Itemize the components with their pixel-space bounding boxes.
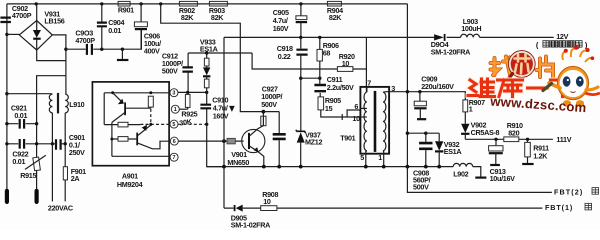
marker polarity arrow C910 <box>229 106 235 112</box>
svg-text:HM9204: HM9204 <box>117 180 143 189</box>
resistor R903 <box>209 1 228 21</box>
svg-text:15: 15 <box>325 104 333 113</box>
capacitor C904 <box>97 4 125 49</box>
wire collector node to C927 <box>263 111 279 113</box>
node rail-bridge junction <box>5 33 8 36</box>
node internal dashed junction <box>149 123 152 126</box>
label FBT(1) pin <box>545 203 592 212</box>
pin 1 of A901 <box>171 105 179 113</box>
wire T901 pin6 stub <box>347 110 361 117</box>
ground R911 <box>522 163 533 165</box>
watermark magnifier with xin char <box>508 51 535 79</box>
inductor L910 line filter <box>49 93 84 114</box>
svg-text:L902: L902 <box>453 170 468 179</box>
svg-text:10u/16V: 10u/16V <box>490 174 516 183</box>
node C909 top junction <box>418 90 421 93</box>
svg-text:FBT(2): FBT(2) <box>554 188 583 197</box>
svg-text:1: 1 <box>469 104 473 113</box>
node bus-C905 junction <box>299 2 302 5</box>
inductor L903 100uH <box>461 17 482 38</box>
svg-text:500V: 500V <box>162 66 178 75</box>
wire bridge bottom tip L-run <box>37 50 66 61</box>
label FBT(2) pin <box>554 188 599 197</box>
node rail-C921 junction <box>5 122 8 125</box>
svg-text:ES1A: ES1A <box>444 147 462 156</box>
node C901-L910right junction <box>64 142 67 145</box>
wire bottom rail <box>207 167 481 177</box>
svg-text:MN650: MN650 <box>227 158 249 167</box>
svg-text:0.22: 0.22 <box>278 52 291 61</box>
resistor R902 <box>179 1 198 21</box>
svg-text:6: 6 <box>173 139 176 145</box>
ground L902 <box>475 176 486 178</box>
svg-text:4700P: 4700P <box>75 36 95 45</box>
resistor internal Rc <box>118 137 128 142</box>
capacitor C927 <box>261 84 286 166</box>
node pin3-R925 junction <box>186 91 189 94</box>
capacitor C912 <box>162 52 193 93</box>
wire bridge top tip to bus <box>36 4 38 21</box>
node pin10 tick <box>341 114 343 120</box>
resistor R901 <box>118 1 134 14</box>
wire internal Q1 collector drop <box>111 122 113 156</box>
pin 3 of A901 <box>170 89 178 97</box>
resistor R925 30K <box>179 92 198 127</box>
svg-text:160V: 160V <box>273 24 289 33</box>
capacitor C913 <box>489 139 516 183</box>
wire B+ right vertical <box>406 4 408 167</box>
svg-text:T901: T901 <box>340 133 355 142</box>
svg-text:12V: 12V <box>556 32 568 41</box>
diode V937 MZ12 zener <box>296 130 322 167</box>
svg-text:7: 7 <box>173 155 176 161</box>
wire pin5 dashed run <box>178 123 207 125</box>
ground C909 <box>417 118 426 120</box>
svg-text:MZ12: MZ12 <box>305 138 322 147</box>
node V933 top junction <box>205 51 208 54</box>
node bottom rail junction <box>364 165 368 169</box>
node bus-C906 junction <box>139 2 142 5</box>
svg-text:3: 3 <box>172 91 175 97</box>
svg-text:10: 10 <box>263 197 271 206</box>
svg-text:5: 5 <box>172 122 175 128</box>
capacitor C909 <box>414 75 454 119</box>
wire left AC rail <box>6 4 8 190</box>
svg-text:LB156: LB156 <box>44 17 64 26</box>
svg-text:111V: 111V <box>556 135 571 144</box>
transformer T901 box <box>360 87 389 154</box>
wire internal Rc row <box>112 138 136 140</box>
node bottom rail junction <box>262 165 266 169</box>
svg-text:160V: 160V <box>213 112 229 121</box>
svg-text:500V: 500V <box>413 182 429 191</box>
pin 6 of A901 <box>170 137 178 145</box>
mains plug prong right <box>35 191 39 202</box>
node C905-C918 junction <box>299 36 302 39</box>
resistor R906 68 <box>317 37 339 78</box>
svg-text:6: 6 <box>354 102 358 111</box>
svg-text:100uH: 100uH <box>461 24 481 33</box>
wire pin1 to R925 <box>179 108 188 110</box>
node C903-C904 junction <box>100 48 103 51</box>
svg-text:ES1A: ES1A <box>200 45 218 54</box>
svg-text:2.2u/50V: 2.2u/50V <box>327 83 354 92</box>
wire top B+ bus <box>7 3 408 5</box>
wire rail to L910 left winding <box>7 93 51 95</box>
wire IC internal top rail <box>104 92 169 94</box>
winding T901 secondary right <box>383 92 386 150</box>
resistor R907 1 <box>463 98 485 124</box>
watermark mascot <box>543 45 598 107</box>
diode V933 ES1A <box>200 37 218 92</box>
mains plug prong left <box>5 191 9 202</box>
transistor Q1 inside IC <box>112 93 151 123</box>
node collector junction <box>262 110 266 114</box>
svg-text:68: 68 <box>323 48 331 57</box>
wire T901 pin5 drop <box>365 154 367 167</box>
resistor R910 820 <box>504 121 523 142</box>
node bus collector-branch junction <box>159 2 162 5</box>
transistor V901 MN650 <box>227 126 265 167</box>
node bottom rail junction <box>437 165 441 169</box>
node R911 junction <box>526 138 529 141</box>
wire FBT1 output <box>224 207 542 209</box>
wire snubber feed row y37 <box>224 36 554 38</box>
wire T901 tap10 inside <box>360 116 367 118</box>
wire FBT2 output <box>407 167 552 193</box>
svg-text:0.01: 0.01 <box>108 26 121 35</box>
svg-text:1: 1 <box>174 107 177 113</box>
wire link C918 to C911 top <box>301 77 320 79</box>
node AC-C903 junction <box>64 48 67 51</box>
svg-text:SM-1-02FRA: SM-1-02FRA <box>231 220 270 229</box>
node bottom rail junction <box>424 165 428 169</box>
pin 7 of A901 <box>170 153 178 161</box>
wire rail to bridge left tip <box>7 33 19 35</box>
svg-text:250V: 250V <box>69 148 85 157</box>
node bottom rail junction <box>277 165 281 169</box>
resistor internal Ra <box>148 96 153 107</box>
node C918-C911 link junction <box>299 77 302 80</box>
svg-text:400V: 400V <box>144 46 160 55</box>
watermark zhao char (find) <box>491 57 513 76</box>
wire internal bottom run to pin7 edge <box>112 155 169 157</box>
core T901 <box>374 91 377 152</box>
node pin3-C910 junction <box>205 91 208 94</box>
wire feedback vertical to FBT1 <box>223 37 225 208</box>
capacitor C908 <box>413 133 433 191</box>
wire T901 pin7 vertical <box>365 37 367 92</box>
node bus-C904 junction <box>100 2 103 5</box>
svg-text:R901: R901 <box>118 5 134 14</box>
node pin3-bus junction <box>406 90 409 93</box>
svg-text:1: 1 <box>378 153 382 162</box>
node internal Rc junction <box>110 138 113 141</box>
wire internal Rb row <box>104 124 140 126</box>
resistor R905 15 <box>318 96 361 117</box>
wire 111V output rail <box>465 138 553 140</box>
label 12V chinese note (line start supply) <box>536 40 588 49</box>
wire internal dashed link to pin5 <box>140 109 169 125</box>
svg-text:L910: L910 <box>69 100 84 109</box>
ferrite bead base <box>227 138 235 144</box>
diode V932 ES1A <box>435 133 461 166</box>
diode V902 CR5AS-8 <box>461 121 499 140</box>
svg-text:10: 10 <box>352 114 360 123</box>
wire secondary mid row <box>407 132 439 134</box>
svg-text:82K: 82K <box>181 13 194 22</box>
svg-text:82K: 82K <box>329 13 342 22</box>
node C922-C901 junction <box>51 142 54 145</box>
node C921-R915 junction <box>35 122 38 125</box>
capacitor C922 <box>7 139 53 166</box>
node C913 junction <box>494 138 497 141</box>
capacitor C921 <box>7 104 37 129</box>
capacitor C902 <box>0 4 31 22</box>
op-amp U1 control IC A901 HM9204 box <box>92 82 169 166</box>
wire V933 top run <box>188 52 252 54</box>
watermark red pen swoosh <box>581 91 600 95</box>
wire collector branch from bus <box>161 4 264 112</box>
wire pin3 row to R907 <box>389 92 465 100</box>
svg-text:500V: 500V <box>261 100 277 109</box>
wire C903 ground run <box>66 30 141 49</box>
node bottom rail junction <box>406 165 410 169</box>
ferrite bead collector <box>261 112 266 126</box>
svg-text:CR5AS-8: CR5AS-8 <box>471 128 500 137</box>
svg-text:2A: 2A <box>71 174 80 183</box>
svg-text:0.01: 0.01 <box>12 157 25 166</box>
svg-text:(: ( <box>536 40 539 49</box>
node IC internal Q1 emitter junction <box>111 91 114 94</box>
svg-text:SM-1-20FRA: SM-1-20FRA <box>431 48 470 57</box>
resistor R915 <box>20 155 46 190</box>
node rail-L910 junction <box>5 92 8 95</box>
pin 5 of A901 <box>170 120 178 128</box>
watermark weiku yixia red characters <box>468 79 576 97</box>
wire L910 left lead down <box>51 113 53 202</box>
capacitor C903 <box>75 28 95 55</box>
transistor Q2 inside IC <box>137 125 169 149</box>
node IC internal Ra junction <box>149 91 152 94</box>
svg-text:1.2K: 1.2K <box>533 152 548 161</box>
winding T901 primary left <box>366 87 368 92</box>
watermark pian char (chip) <box>537 57 554 78</box>
capacitor C901 <box>52 133 85 157</box>
node bottom rail junction <box>222 165 226 169</box>
wire T901 tap6 inside <box>360 107 367 109</box>
resistor internal Rb <box>118 122 128 127</box>
capacitor C910 <box>200 92 228 124</box>
capacitor C905 <box>273 4 307 38</box>
diode D905 SM-1-02FRA <box>231 205 270 230</box>
node C922-R915 junction <box>35 142 38 145</box>
node bus-mid junction <box>406 132 409 135</box>
ground C913 <box>490 164 500 166</box>
svg-text:7: 7 <box>367 79 371 88</box>
resistor R904 <box>327 1 343 21</box>
svg-text:10: 10 <box>342 59 350 68</box>
fuse F901 2A <box>63 167 86 202</box>
bridge rectifier V931 LB156 <box>19 9 64 50</box>
ground primary <box>117 49 128 60</box>
wire R920 row <box>252 53 366 69</box>
wire pin3 row <box>178 91 207 93</box>
svg-text:220u/160V: 220u/160V <box>421 82 454 91</box>
node R906 top junction <box>318 36 321 39</box>
svg-text:4700P: 4700P <box>12 11 32 20</box>
node pin5-C910 junction <box>205 123 208 126</box>
node base feedback junction <box>222 139 226 143</box>
svg-text:FBT(1): FBT(1) <box>545 203 573 212</box>
capacitor C906 <box>134 4 161 56</box>
svg-text:82K: 82K <box>211 13 224 22</box>
resistor R908 10 <box>261 190 279 211</box>
wire L910 right lead down <box>64 113 66 167</box>
wire AC branch to R915 chain <box>37 76 66 158</box>
node bottom rail junction <box>382 165 386 169</box>
wire bridge right tip over and down <box>52 35 66 94</box>
svg-text:820: 820 <box>508 128 519 137</box>
wire pin6 base run <box>178 140 243 142</box>
svg-text:0.01: 0.01 <box>14 111 27 120</box>
svg-text:5: 5 <box>360 153 364 162</box>
diode D904 SM-1-20FRA <box>431 34 470 57</box>
wire IC internal left rail <box>103 93 105 125</box>
node C911 top junction <box>318 77 321 80</box>
wire T901 pin1 drop <box>383 154 385 167</box>
resistor R920 10 <box>337 52 355 71</box>
capacitor C918 <box>277 37 308 131</box>
node bottom rail junction <box>299 165 303 169</box>
svg-text:220VAC: 220VAC <box>48 203 73 212</box>
capacitor C911 <box>314 75 354 97</box>
node ground junction <box>121 48 124 51</box>
inductor L902 <box>453 163 473 178</box>
resistor R911 1.2K <box>525 139 549 163</box>
wire C910 drop to rail <box>207 124 224 166</box>
node C908 top junction <box>424 132 427 135</box>
svg-text:R915: R915 <box>20 171 36 180</box>
node rail-C922 junction <box>5 142 8 145</box>
node bus-C902 junction <box>35 2 38 5</box>
